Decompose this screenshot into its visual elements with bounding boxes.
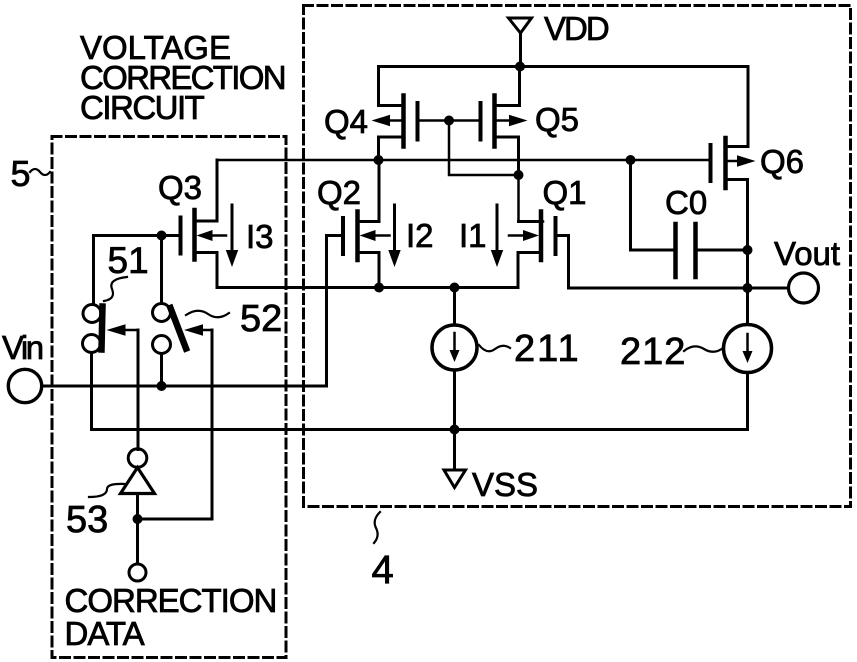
switch 51 control arrow — [107, 324, 139, 449]
transistor Q5 — [449, 67, 528, 176]
squiggle for 4 — [374, 512, 380, 543]
wire mirror output line (Q3 drain to Q6 gate) — [217, 159, 708, 162]
svg-text:C0: C0 — [665, 184, 707, 221]
wire VSS line — [93, 428, 748, 431]
svg-text:5: 5 — [11, 153, 31, 194]
svg-text:CIRCUIT: CIRCUIT — [80, 89, 205, 126]
transistor Q6 — [711, 67, 756, 289]
wire Q3 gate to switch 52 — [160, 236, 163, 304]
switch 52 control arrow — [137, 324, 212, 519]
transistor Q3 — [94, 160, 227, 288]
squiggle for 52 — [186, 311, 229, 318]
wire Q5 drain down to Q1 drain — [519, 175, 544, 222]
wire Vout — [748, 287, 789, 290]
svg-text:212: 212 — [620, 331, 686, 373]
wire VDD rail — [379, 65, 749, 68]
current arrow I3 — [226, 205, 238, 267]
wire Vin to Q2 gate — [42, 385, 327, 388]
wire switch 52 to Vin line — [160, 354, 163, 387]
capacitor C0 — [631, 160, 748, 277]
node Q2 source tail dot — [374, 283, 384, 293]
terminal Vout — [789, 273, 819, 303]
transistor Q4 — [372, 67, 450, 161]
switch 52 — [153, 304, 187, 354]
svg-text:Q2: Q2 — [317, 174, 361, 211]
svg-text:I2: I2 — [406, 217, 434, 254]
VSS symbol — [444, 430, 466, 488]
svg-text:I3: I3 — [246, 218, 274, 255]
current source 212 — [724, 288, 772, 430]
squiggle for 51 — [104, 277, 127, 301]
svg-text:Q3: Q3 — [158, 169, 202, 206]
transistor Q1 — [509, 212, 748, 289]
svg-text:Vin: Vin — [2, 329, 43, 366]
svg-text:VSS: VSS — [472, 466, 538, 503]
svg-text:51: 51 — [108, 240, 149, 281]
svg-text:Q1: Q1 — [543, 174, 587, 211]
node gate Q3 junction — [157, 231, 167, 241]
svg-text:53: 53 — [66, 499, 108, 541]
node Q5 drain dot — [514, 170, 524, 180]
node Q4 drain dot — [374, 155, 384, 165]
current source 211 — [432, 288, 477, 430]
svg-text:I1: I1 — [459, 217, 487, 254]
node Q4 gate junction dot — [444, 116, 454, 126]
svg-text:DATA: DATA — [65, 615, 145, 652]
node C0 right dot — [743, 245, 753, 255]
node Vin-switch52 dot — [157, 381, 167, 391]
svg-text:52: 52 — [240, 298, 282, 340]
wire diff pair tail — [217, 286, 518, 289]
node Vout dot — [743, 283, 753, 293]
VDD symbol — [509, 18, 532, 67]
svg-text:Q6: Q6 — [760, 143, 804, 180]
current arrow I1 — [491, 205, 503, 267]
current arrow I2 — [388, 205, 400, 267]
svg-text:VDD: VDD — [544, 10, 609, 47]
wire Q3 gate to switch 51 — [92, 236, 95, 305]
node tail current dot — [450, 283, 460, 293]
svg-text:211: 211 — [514, 328, 581, 370]
wire switch 51 to VSS — [90, 353, 93, 430]
switch 51 — [83, 305, 103, 353]
wire Q4-Q5 gates to Q5 drain (diode connection) — [449, 121, 519, 176]
voltage correction circuit 5 dashed box — [52, 137, 286, 658]
squiggle for 211 — [479, 345, 510, 351]
svg-text:Q5: Q5 — [535, 101, 579, 138]
svg-text:4: 4 — [372, 548, 394, 592]
squiggle for 212 — [684, 346, 723, 351]
transistor Q2 — [327, 160, 390, 386]
svg-text:Vout: Vout — [774, 235, 840, 272]
inverter 53 — [121, 449, 155, 564]
squiggle for 5 — [30, 169, 50, 175]
svg-text:CORRECTION: CORRECTION — [65, 582, 277, 619]
node C0 branch dot — [626, 155, 636, 165]
svg-text:Q4: Q4 — [324, 103, 368, 140]
node VSS dot — [450, 425, 460, 435]
squiggle for 53 — [89, 484, 126, 497]
node inverter input junction — [133, 514, 143, 524]
node VDD rail dot — [515, 62, 525, 72]
amplifier block 4 dashed box — [304, 6, 851, 507]
terminal correction data — [129, 564, 146, 581]
terminal Vin — [8, 369, 41, 402]
